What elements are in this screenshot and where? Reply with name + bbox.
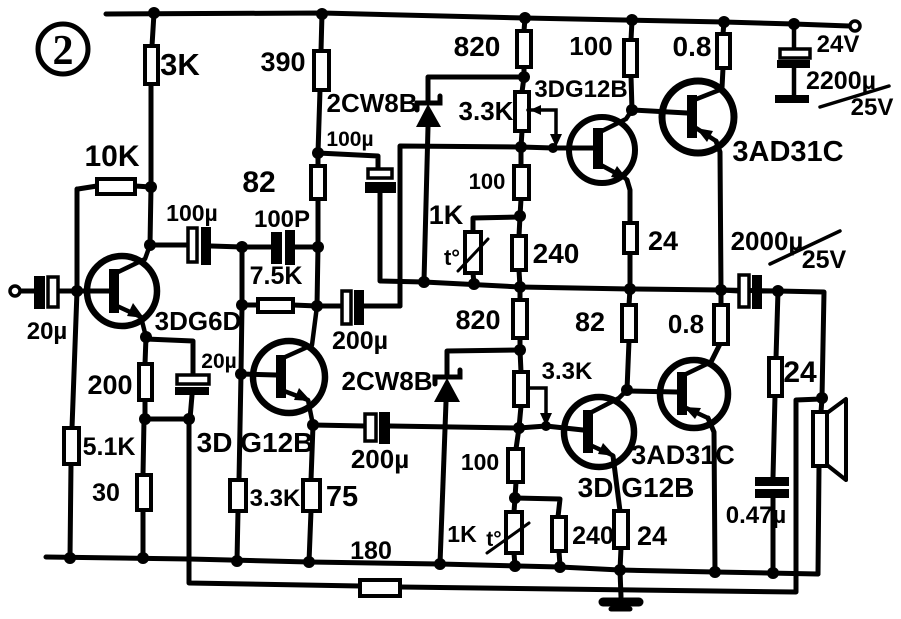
resistor 390 <box>314 51 329 90</box>
wire: zener lower stub <box>447 350 520 377</box>
wire: 820 lower leads <box>518 287 523 350</box>
wire: Q4 base line <box>313 425 583 430</box>
wire: +24V top rail <box>106 13 849 26</box>
wire: Q3 base <box>632 110 687 113</box>
svg-text:100: 100 <box>461 449 499 475</box>
wire: mid rail to speaker <box>778 291 824 398</box>
svg-text:3DG6D: 3DG6D <box>155 306 242 336</box>
input terminal <box>10 286 20 296</box>
resistor 82 lower <box>622 305 636 341</box>
svg-text:3DG12B: 3DG12B <box>534 76 627 103</box>
resistor 0.8 top <box>717 34 730 68</box>
wire: zener lower anode <box>440 402 446 564</box>
wire: feedback line <box>189 419 360 586</box>
svg-text:240: 240 <box>572 522 614 550</box>
wire: Q4 emitter to 24 <box>613 456 621 570</box>
wire: node column x241 <box>237 247 242 561</box>
capacitor 100P <box>271 230 295 265</box>
resistor 240 lower <box>552 517 566 551</box>
capacitor 200u upper <box>342 290 364 325</box>
ground symbol <box>603 602 639 609</box>
wire: ground rail <box>46 557 818 574</box>
preset tap lower <box>528 388 546 415</box>
svg-text:200: 200 <box>87 370 132 400</box>
svg-text:1K: 1K <box>429 200 464 230</box>
wire: 240 upper leads <box>519 216 520 287</box>
transistor Q4 3DG12B lower driver <box>564 390 634 467</box>
wire: Q5 lower base <box>627 391 677 392</box>
transistor Q1 3DG6D <box>87 245 157 337</box>
svg-text:3D G12B: 3D G12B <box>197 427 314 458</box>
capacitor 2000u output <box>739 275 762 309</box>
wire: Q1 collector to cap <box>150 243 188 248</box>
wire: speaker top <box>821 398 822 412</box>
wire: 0.8 lower leads <box>711 290 721 362</box>
wire: cap to 100P node <box>211 246 242 247</box>
svg-text:0.8: 0.8 <box>668 309 704 339</box>
resistor 75 <box>303 480 320 511</box>
svg-text:0.8: 0.8 <box>673 31 712 62</box>
svg-text:2: 2 <box>53 28 74 74</box>
svg-text:t°: t° <box>486 528 501 551</box>
thermistor diagonals and taps <box>458 110 556 553</box>
resistor 82 upper <box>311 166 325 199</box>
svg-text:390: 390 <box>260 47 305 77</box>
resistor 240 upper <box>512 236 526 270</box>
svg-text:240: 240 <box>533 238 580 269</box>
wire: 100 lower leads <box>515 428 519 498</box>
svg-text:2CW8B: 2CW8B <box>341 366 432 396</box>
wire: zener upper anode <box>424 127 428 281</box>
svg-text:180: 180 <box>350 537 392 565</box>
wire: 200u up to driver base line <box>400 146 593 306</box>
wire: mid output rail <box>424 282 778 291</box>
svg-text:3K: 3K <box>160 47 200 82</box>
resistor 3.3K lower preset <box>514 372 528 406</box>
svg-text:10K: 10K <box>84 140 139 173</box>
wire: 3K leads <box>150 13 154 245</box>
wire: 200u coupling leads <box>317 304 400 309</box>
wire: Q5 lower emitter down <box>708 418 715 572</box>
resistor 0.8 lower <box>714 305 728 344</box>
resistor 3.3K upper preset <box>515 92 529 131</box>
wire: 7.5K leads <box>242 305 317 306</box>
wire: ground stub <box>620 570 621 597</box>
svg-text:200µ: 200µ <box>332 327 388 355</box>
capacitor 100u coupling <box>188 227 211 265</box>
preset tap arrowheads <box>550 134 562 147</box>
svg-text:30: 30 <box>92 479 120 507</box>
resistor 180 feedback <box>360 580 400 596</box>
resistor 820 lower <box>513 300 527 338</box>
transistor Q3 3DG12B driver <box>569 110 635 183</box>
wire: cap to Q1 base <box>58 289 109 294</box>
resistor 24 lower <box>614 511 628 548</box>
wire: 3.3K lower leads <box>519 350 521 428</box>
thermistor 1K lower <box>506 512 522 553</box>
svg-text:24: 24 <box>783 356 817 389</box>
svg-text:t°: t° <box>444 245 460 270</box>
svg-text:3.3K: 3.3K <box>459 96 514 126</box>
resistor 24 upper <box>624 223 637 253</box>
+24V supply terminal <box>850 21 860 31</box>
svg-text:20µ: 20µ <box>27 318 68 345</box>
wire: speaker bottom to ground rail <box>818 467 819 574</box>
svg-text:24: 24 <box>648 226 678 256</box>
svg-text:100: 100 <box>469 169 506 194</box>
svg-text:100: 100 <box>569 31 612 61</box>
svg-text:2000µ: 2000µ <box>731 226 804 256</box>
speaker <box>813 399 846 480</box>
wire: 3.3K upper leads <box>521 77 524 147</box>
wire: 240 lower top <box>515 498 560 566</box>
wire: 2000u leads <box>721 290 778 291</box>
resistors <box>64 31 782 596</box>
svg-text:82: 82 <box>575 307 605 337</box>
wire: bootstrap cap leads <box>318 153 424 282</box>
value label slash 2200u/25V <box>820 86 889 107</box>
resistor 100 top <box>624 40 637 76</box>
svg-text:1K: 1K <box>447 521 477 547</box>
wire: thermistor upper top <box>473 217 520 232</box>
transistor Q5 3AD31C upper <box>662 81 734 153</box>
zener 2CW8B upper <box>416 96 441 127</box>
wire: 0.8 top leads <box>722 22 724 88</box>
wire: 390 leads <box>318 13 322 166</box>
wire: 82 bottom <box>317 199 318 306</box>
svg-text:3D G12B: 3D G12B <box>578 472 695 503</box>
capacitor 2200u <box>775 26 810 103</box>
resistor 3K <box>145 46 158 84</box>
capacitor 20u input <box>34 276 58 309</box>
svg-text:75: 75 <box>326 481 358 513</box>
thermistor 1K upper <box>465 232 481 273</box>
svg-text:7.5K: 7.5K <box>250 262 303 290</box>
svg-text:3AD31C: 3AD31C <box>631 440 735 470</box>
wire: thermistor upper bottom <box>473 273 474 284</box>
svg-text:25V: 25V <box>802 246 847 274</box>
svg-text:2CW8B: 2CW8B <box>326 88 417 118</box>
capacitor 20u bypass <box>175 375 209 395</box>
figure number badge 2 <box>38 24 88 74</box>
resistor 100 upper <box>514 166 529 199</box>
wire: Q1 emitter network <box>145 337 193 419</box>
wire: 30 leads <box>143 419 144 558</box>
thermistor upper diagonal <box>458 239 488 271</box>
wire: feedback line right <box>400 399 821 592</box>
capacitor 100u bootstrap <box>365 169 396 193</box>
capacitor 200u lower <box>365 412 390 444</box>
wire: Q3 emitter to 24 <box>627 180 630 289</box>
resistor 30 <box>137 475 151 510</box>
resistor 24 output <box>769 358 782 396</box>
resistor 10K <box>97 179 135 194</box>
svg-text:100µ: 100µ <box>166 200 218 226</box>
wire: 24 output leads <box>773 291 778 573</box>
svg-text:82: 82 <box>242 166 275 199</box>
transistor Q2 3DG12B <box>253 306 325 425</box>
svg-text:20µ: 20µ <box>201 350 236 373</box>
wire: zener upper cathode stub <box>428 77 524 103</box>
svg-text:3.3K: 3.3K <box>250 485 301 512</box>
svg-text:3AD31C: 3AD31C <box>732 136 843 168</box>
resistor 200 <box>139 364 152 400</box>
resistor 820 upper <box>517 31 531 67</box>
wire: 820 upper leads <box>524 18 525 77</box>
wire: thermistor lower leads <box>514 498 515 566</box>
preset tap upper <box>528 110 556 136</box>
resistor 5.1K <box>64 428 79 464</box>
wire: 10K leads <box>78 186 151 189</box>
resistor 100 lower <box>508 449 523 482</box>
thermistor lower diagonal <box>487 523 529 553</box>
capacitor 0.47u <box>755 477 789 498</box>
value label slash 2000u/25V <box>770 231 840 264</box>
wire: 75 leads <box>309 425 313 562</box>
svg-text:820: 820 <box>455 305 500 335</box>
wire: Q5 upper emitter down <box>716 141 721 290</box>
svg-text:3.3K: 3.3K <box>542 358 593 385</box>
wire: 82 lower leads <box>627 289 630 390</box>
transistor Q6 3AD31C lower <box>660 360 728 428</box>
wire: input to cap <box>20 289 34 294</box>
svg-text:0.47µ: 0.47µ <box>726 502 787 529</box>
svg-text:100µ: 100µ <box>326 128 373 151</box>
svg-text:25V: 25V <box>851 94 894 121</box>
svg-text:24V: 24V <box>817 31 860 58</box>
wire: input node vertical <box>70 189 77 558</box>
svg-text:200µ: 200µ <box>351 444 409 474</box>
resistor 3.3K lower-left <box>230 480 246 511</box>
wire: 100 top leads <box>631 20 632 110</box>
svg-text:100P: 100P <box>254 206 310 233</box>
resistor 7.5K <box>258 299 293 312</box>
wire: 100 upper leads <box>520 147 521 216</box>
svg-text:820: 820 <box>454 31 501 62</box>
wire: 100P leads <box>242 245 318 250</box>
wire: Q2 base <box>241 374 276 375</box>
svg-text:5.1K: 5.1K <box>83 433 136 461</box>
svg-text:2200µ: 2200µ <box>806 67 876 95</box>
svg-text:24: 24 <box>637 521 667 551</box>
zener 2CW8B lower <box>434 370 460 402</box>
